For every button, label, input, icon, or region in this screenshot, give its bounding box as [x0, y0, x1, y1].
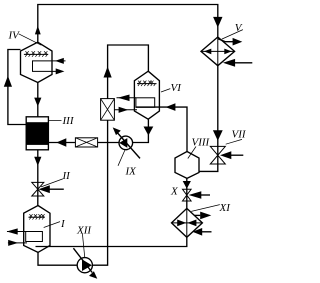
svg-text:II: II	[62, 170, 72, 182]
svg-text:IV: IV	[8, 30, 21, 42]
svg-text:IX: IX	[125, 166, 138, 178]
svg-text:XII: XII	[76, 225, 92, 237]
svg-text:XI: XI	[219, 202, 232, 214]
svg-text:III: III	[62, 115, 75, 127]
svg-text:VIII: VIII	[192, 137, 211, 149]
svg-text:VI: VI	[171, 82, 183, 94]
svg-text:X: X	[170, 186, 179, 198]
svg-text:VII: VII	[232, 129, 247, 141]
